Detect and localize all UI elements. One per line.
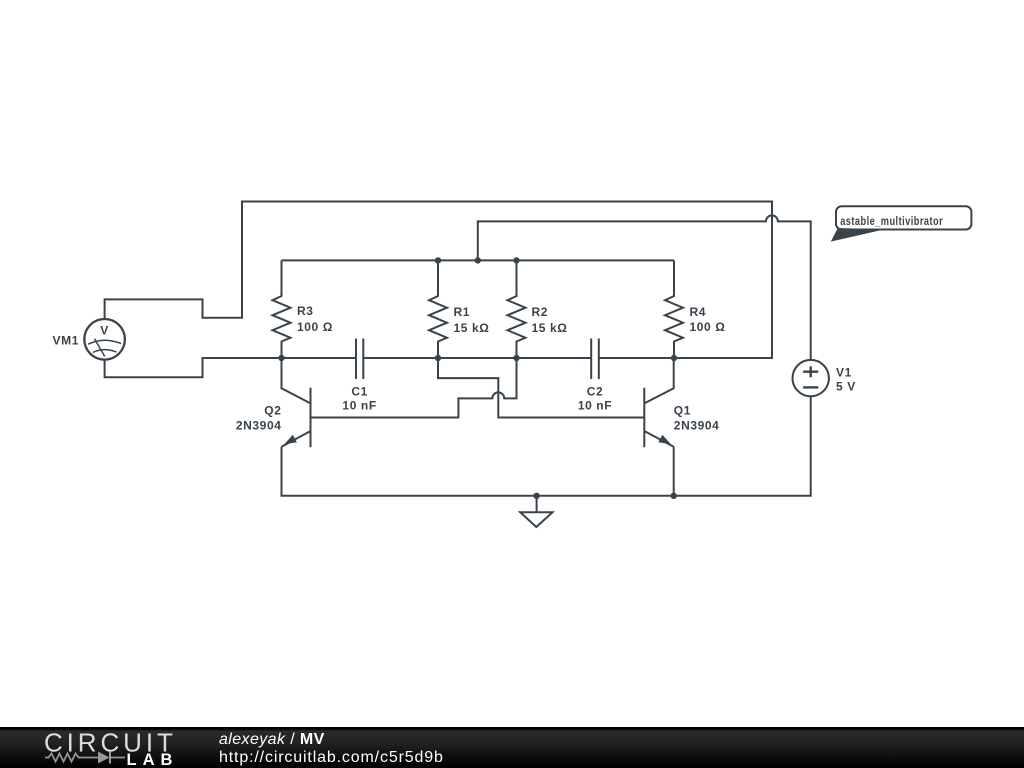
svg-text:LAB: LAB: [127, 751, 179, 768]
wire Vcc rail from node above R1/R2 to V1+ (with hop): [478, 215, 811, 359]
svg-text:V1: V1: [836, 365, 852, 379]
node dot R4 bottom / Q1 collector: [671, 355, 677, 361]
voltmeter VM1 circle: [84, 319, 125, 360]
svg-text:R1: R1: [454, 305, 471, 319]
svg-text:2N3904: 2N3904: [236, 419, 282, 433]
svg-text:10 nF: 10 nF: [578, 399, 612, 413]
transistor Q2 body: [282, 358, 311, 447]
svg-text:10 nF: 10 nF: [342, 399, 376, 413]
node dot Q1 emitter at ground rail: [671, 493, 677, 499]
logo resistor squiggle and diode: [45, 754, 125, 762]
node dot ground stem: [533, 493, 539, 499]
svg-text:R3: R3: [297, 304, 314, 318]
wire middle node R1 bottom to R2 bottom between C1 and C2: [363, 357, 591, 359]
footer bar: [0, 727, 1024, 768]
footer url: [219, 749, 444, 766]
node dot Vcc feed: [475, 257, 481, 263]
svg-text:100 Ω: 100 Ω: [690, 320, 726, 334]
svg-text:VM1: VM1: [53, 334, 79, 348]
wire R1 bottom node to Q1 base: [438, 358, 644, 418]
svg-text:15 kΩ: 15 kΩ: [532, 321, 568, 335]
transistor Q2 emitter arrow: [284, 435, 297, 445]
resistor R2: [508, 260, 526, 358]
footer author / title: [219, 731, 325, 748]
wire Vcc top rail joining R3,R1,R2,R4 tops: [282, 259, 675, 261]
wire VM1+ top rail to Q1 collector node: [105, 202, 772, 359]
voltage source V1 minus sign: [803, 386, 818, 388]
node dot R2 top: [513, 257, 519, 263]
node dot R1 top: [435, 257, 441, 263]
transistor Q1 emitter arrow: [658, 435, 671, 445]
node dot R1 bottom: [435, 355, 441, 361]
transistor Q1 body: [644, 358, 673, 496]
resistor R4: [665, 260, 683, 358]
capacitor C1 plates: [356, 339, 363, 380]
voltage source V1 plus sign: [803, 366, 818, 377]
voltage source V1 circle: [793, 360, 829, 396]
svg-text:2N3904: 2N3904: [674, 419, 720, 433]
svg-text:Q2: Q2: [264, 404, 281, 418]
svg-text:R4: R4: [690, 305, 707, 319]
wire R2 bottom node to Q2 base (with hop): [311, 358, 517, 418]
resistor R1: [429, 260, 447, 358]
capacitor C2 plates: [591, 339, 599, 380]
wire VM1- to R3 bottom / Q2 collector node: [105, 358, 356, 377]
annotation bubble box astable_multivibrator: [836, 206, 971, 229]
svg-text:15 kΩ: 15 kΩ: [454, 321, 490, 335]
wire ground rail from V1- to Q2 emitter: [282, 396, 811, 496]
node dot R3 bottom / Q2 collector: [278, 355, 284, 361]
node dot R2 bottom: [513, 355, 519, 361]
svg-text:C2: C2: [587, 385, 604, 399]
ground symbol: [520, 496, 552, 527]
svg-text:5 V: 5 V: [836, 379, 856, 393]
CircuitLab logo: [30, 727, 210, 768]
svg-text:C1: C1: [351, 385, 368, 399]
annotation bubble tail: [831, 228, 884, 242]
svg-text:100 Ω: 100 Ω: [297, 320, 333, 334]
resistor R3: [273, 260, 291, 358]
svg-text:R2: R2: [532, 305, 549, 319]
svg-text:astable_multivibrator: astable_multivibrator: [840, 215, 943, 228]
svg-text:Q1: Q1: [674, 404, 691, 418]
svg-text:V: V: [100, 324, 109, 338]
voltmeter VM1 meter face arcs and needle: [88, 339, 121, 357]
